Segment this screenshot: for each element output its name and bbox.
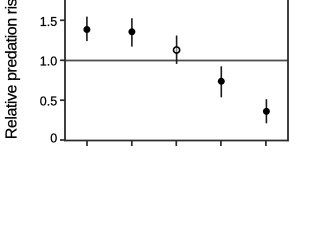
reference line at y=1.0	[65, 60, 288, 62]
error bar P5	[265, 99, 267, 123]
point P1 filled circle	[83, 26, 90, 33]
svg-text:1.0: 1.0	[40, 54, 57, 68]
error bar P3	[176, 36, 178, 64]
svg-text:1.5: 1.5	[40, 15, 57, 29]
point P5 filled circle	[263, 108, 270, 115]
point P2 filled circle	[128, 28, 135, 35]
error bar P2	[131, 18, 133, 46]
right border	[287, 0, 289, 141]
y tick 1.0	[60, 59, 65, 61]
point P4 filled circle	[218, 78, 225, 85]
x tick 3	[175, 141, 177, 147]
y tick 0.5	[60, 99, 65, 101]
x tick 1	[86, 141, 88, 147]
y tick 0	[60, 139, 65, 141]
error bar P4	[220, 66, 222, 97]
svg-text:0: 0	[50, 132, 57, 146]
x tick 5	[265, 141, 267, 147]
svg-text:Relative predation risk: Relative predation risk	[4, 0, 21, 139]
x tick 4	[220, 141, 222, 147]
point P3 open circle	[174, 47, 180, 53]
y tick 1.5	[60, 19, 65, 21]
svg-text:0.5: 0.5	[40, 95, 57, 109]
x-axis line	[64, 140, 289, 142]
point P3 open circle interior	[174, 48, 179, 53]
x tick 2	[131, 141, 133, 147]
y-axis line	[64, 0, 66, 141]
error bar P1	[86, 17, 88, 41]
